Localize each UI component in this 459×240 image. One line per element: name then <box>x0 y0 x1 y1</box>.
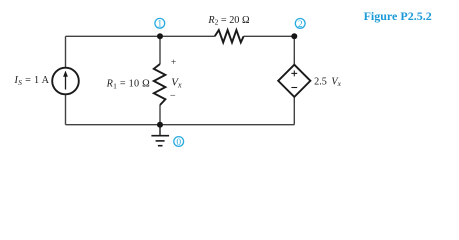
wire top rail right segment (R2 to node 2) <box>244 35 295 37</box>
junction dot node 2 <box>291 33 297 39</box>
svg-text:IS = 1 A: IS = 1 A <box>13 75 49 87</box>
dependent source minus sign <box>291 87 297 89</box>
wire R1 bottom to bottom rail <box>159 105 161 125</box>
wire node 1 down to R1 top <box>159 36 161 64</box>
wire top rail left segment (node 1 to R2) <box>66 35 215 37</box>
wire bottom rail <box>66 124 295 126</box>
svg-text:R2 = 20 Ω: R2 = 20 Ω <box>207 15 250 27</box>
svg-text:2: 2 <box>298 20 303 30</box>
svg-text:−: − <box>170 91 176 102</box>
svg-text:0: 0 <box>176 138 181 148</box>
current source IS circle <box>52 68 79 95</box>
wire dependent source bottom to bottom rail <box>293 97 295 125</box>
dependent source diamond <box>278 65 310 97</box>
current source IS arrow <box>63 71 68 90</box>
wire left rail above current source <box>65 36 67 68</box>
junction dot node 1 <box>157 33 163 39</box>
wire node 2 down to dependent source top <box>293 36 295 64</box>
node 1 label <box>155 18 165 28</box>
resistor R1 (vertical zigzag) <box>154 64 166 105</box>
svg-text:+: + <box>171 58 176 68</box>
svg-text:1: 1 <box>157 20 162 30</box>
node 2 label <box>295 19 305 29</box>
junction dot bottom node <box>157 122 163 128</box>
svg-text:2.5 Vx: 2.5 Vx <box>314 76 342 88</box>
svg-text:Vx: Vx <box>171 77 182 90</box>
svg-text:Figure P2.5.2: Figure P2.5.2 <box>364 9 432 23</box>
svg-text:R1 = 10 Ω: R1 = 10 Ω <box>106 79 151 91</box>
dependent source plus sign <box>291 71 297 77</box>
node 0 label <box>174 137 184 147</box>
ground <box>151 125 169 146</box>
resistor R2 (horizontal zigzag) <box>215 30 244 43</box>
wire left rail below current source <box>65 94 67 125</box>
